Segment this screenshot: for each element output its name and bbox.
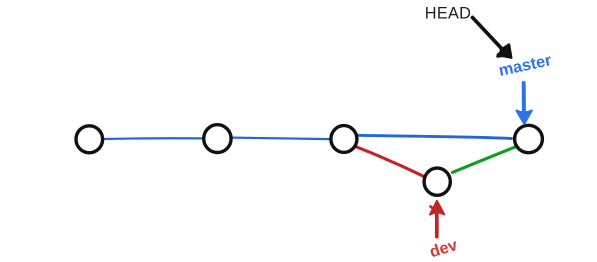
commit node C4 (master tip) [515,125,543,152]
commit node C2 [204,125,231,153]
commit node C3 [331,126,357,153]
svg-text:HEAD: HEAD [425,5,471,23]
arrow: red dev pointer head [430,201,444,215]
arrow: red dev pointer head flick [431,207,435,212]
arrow: black HEAD pointer head [498,45,511,58]
wire: blue branch line C3 to C4 [359,135,512,138]
svg-text:dev: dev [427,236,459,261]
commit node C5 (dev tip) [424,168,450,195]
commit node C1 [76,126,103,153]
arrow: red dev pointer shaft [435,212,439,237]
arrow: blue master pointer shaft [522,83,526,110]
arrow: blue master pointer head [516,110,532,123]
wire: green merge line C5 to C4 [452,146,516,172]
arrow: black HEAD pointer shaft [473,18,503,50]
wire: blue branch line C2 to C3 [231,138,330,140]
wire: blue branch line C1 to C2 [103,137,203,140]
wire: red dev branch line C3 to C5 [357,147,424,176]
